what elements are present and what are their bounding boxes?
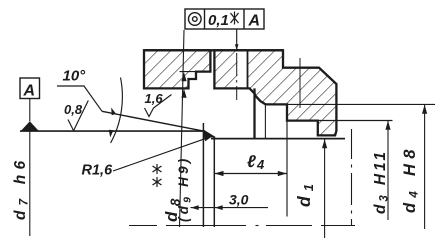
internal sleeve edge [247, 50, 249, 88]
datum triangle on d7 dimension [21, 121, 39, 131]
ejector pin outline d1 [211, 138, 345, 140]
svg-text:R1,6: R1,6 [82, 163, 114, 179]
d9 step surface extension line [180, 71, 197, 73]
feature control frame [185, 9, 264, 29]
bore centerline mark [236, 53, 238, 100]
recess right wall [253, 88, 255, 138]
band edge extension lines [202, 123, 204, 227]
svg-text:10°: 10° [63, 68, 87, 85]
d3 dimension line [387, 121, 389, 221]
d4 counterbore left wall [264, 104, 266, 138]
part outline: main block segment [214, 50, 336, 135]
svg-text:ℓ: ℓ [247, 152, 256, 171]
svg-text:0,8: 0,8 [64, 102, 83, 117]
d8 d9 dimension line [180, 30, 185, 227]
hatching left flange section [144, 50, 210, 88]
part outline: left flange segment [144, 50, 210, 88]
3,0 dimension [191, 207, 269, 209]
svg-text:A: A [248, 13, 261, 30]
d4 dimension line [424, 104, 426, 229]
svg-text:0,1: 0,1 [208, 12, 229, 29]
axis centerline [129, 225, 355, 227]
datum A box [29, 99, 31, 122]
l4 dimension [214, 173, 287, 175]
d3 extension line [287, 120, 393, 122]
d7 dimension line [29, 131, 31, 236]
svg-text:1,6: 1,6 [145, 91, 164, 106]
d7 surface line (datum A surface) [20, 130, 204, 132]
d4 extension line [266, 103, 435, 105]
hatching main block section [214, 50, 237, 88]
svg-text:3,0: 3,0 [229, 192, 249, 208]
top outer surface edge over groove [144, 49, 283, 51]
angle dimension arc [111, 78, 123, 144]
d1 dimension line [324, 139, 326, 238]
10deg taper line [102, 111, 204, 131]
svg-text:4: 4 [256, 157, 265, 172]
svg-text:(d9 H9): (d9 H9) [176, 155, 194, 222]
svg-text:d7 h6: d7 h6 [12, 156, 31, 220]
working band edge [204, 130, 215, 137]
top step centerline [299, 58, 301, 108]
l4 right extension / bore step wall [286, 104, 288, 216]
svg-text:A: A [23, 83, 36, 100]
vertical dash-dot line right [351, 129, 353, 226]
feature control frame leader [236, 29, 238, 50]
svg-text:d3 H11: d3 H11 [372, 149, 391, 214]
svg-text:d4 H8: d4 H8 [401, 144, 421, 213]
